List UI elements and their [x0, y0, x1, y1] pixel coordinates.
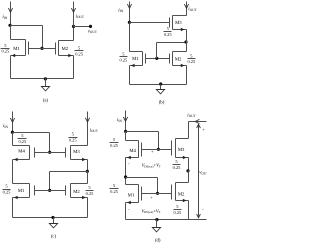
svg-text:5: 5 [113, 183, 116, 188]
ground (c) [49, 218, 57, 228]
transistor M2 (d) [172, 183, 189, 203]
wire: gate wire M1-M2 (d) [142, 193, 172, 195]
value 5/0.25 for M4 (d) [110, 137, 119, 148]
node: upper gate junction (c) [48, 151, 51, 154]
svg-text:0.25: 0.25 [110, 189, 118, 194]
wire: M2 drain riser (b) [186, 43, 188, 52]
svg-text:iIN: iIN [117, 117, 123, 123]
transistor M1 (c) [13, 184, 35, 200]
svg-text:M1: M1 [132, 56, 139, 62]
node: gate junction (a) [40, 47, 43, 50]
svg-text:5: 5 [78, 45, 81, 50]
current arrow iOUT (b) [184, 4, 188, 8]
value 5/0.25 for M1 (b) [120, 51, 129, 62]
wire: input node to M3 gate (b) [130, 22, 170, 24]
svg-text:5: 5 [176, 204, 179, 209]
svg-text:0.25: 0.25 [110, 143, 118, 148]
value 5/0.25 for M2 (d) [174, 204, 183, 215]
value 5/0.25 for M2 (b) [187, 53, 195, 64]
svg-text:M2: M2 [73, 189, 80, 195]
svg-text:M2: M2 [178, 191, 185, 197]
ground (b) [156, 85, 164, 94]
svg-text:0.25: 0.25 [86, 191, 94, 196]
wire: M2 source down (b) [186, 66, 188, 85]
svg-text:0.25: 0.25 [3, 190, 11, 195]
node: input node (c) [11, 131, 14, 134]
value 5/0.25 for M3 (c) [69, 132, 78, 143]
svg-text:iOUT: iOUT [187, 112, 196, 118]
svg-text:0.25: 0.25 [120, 57, 128, 62]
node: input node (a) [8, 24, 11, 27]
svg-text:0.25: 0.25 [187, 59, 195, 64]
wire: M1 gate riser (c) [49, 172, 51, 191]
wire: M2 source down (c) [87, 198, 89, 218]
node: cascode node (d) [186, 169, 189, 172]
wire: input node to M4 gate riser (d) [126, 131, 159, 133]
svg-text:vOUT: vOUT [88, 29, 98, 34]
svg-text:M2: M2 [62, 46, 69, 52]
node: ground rail junction (a) [44, 77, 47, 80]
wire: M2 drain riser (c) [87, 172, 89, 184]
svg-text:-: - [202, 207, 204, 212]
svg-text:0.25: 0.25 [75, 51, 83, 56]
wire: gate wire M1-M2 (c) [35, 190, 66, 192]
svg-text:(c): (c) [51, 234, 57, 240]
svg-text:iIN: iIN [118, 8, 124, 14]
svg-text:5: 5 [88, 185, 91, 190]
node: ground rail junction (c) [51, 216, 54, 219]
wire: M1 source down (c) [12, 198, 14, 218]
current arrow iIN (a) [8, 2, 12, 26]
svg-text:M1: M1 [13, 46, 20, 52]
current arrow iIN (b) [127, 2, 131, 23]
node: input node (b) [128, 21, 131, 24]
current arrow iIN (d) [123, 111, 127, 132]
svg-text:vOUT: vOUT [199, 171, 207, 176]
svg-text:5: 5 [122, 51, 125, 56]
node: upper gate junction (d) [157, 148, 160, 151]
svg-text:-: - [128, 161, 130, 166]
svg-text:0.25: 0.25 [164, 32, 172, 37]
transistor M4 (c) [13, 146, 35, 162]
value 5/0.25 for M3 (b) [164, 26, 173, 37]
wire: M3 source riser (c) [87, 160, 89, 172]
vOUT range arrow (d) [197, 124, 201, 218]
wire: ground rail (b) [130, 84, 187, 86]
transistor M2 (c) [66, 184, 88, 200]
svg-text:iOUT: iOUT [90, 127, 99, 133]
transistor M3 (b) [170, 16, 187, 32]
wire: M1 source down (b) [129, 66, 131, 85]
wire: M4 diode riser (c) [49, 133, 51, 153]
svg-text:M4: M4 [18, 148, 25, 154]
transistor M1 (b) [130, 52, 146, 68]
wire: gate wire M4-M3 (c) [35, 152, 66, 154]
svg-text:VDS(sat)+VT: VDS(sat)+VT [141, 208, 160, 214]
wire: input node down to M4 drain (d) [125, 132, 127, 141]
svg-text:M3: M3 [73, 149, 80, 155]
wire: ground rail (d) [126, 219, 207, 221]
transistor M2 (b) [170, 52, 187, 68]
wire: M4 source down to M1 drain (c) [12, 160, 14, 184]
wire: gate wire M1-M2 (a) [29, 48, 56, 50]
wire: gate wire M1-M2 (b) [146, 58, 170, 60]
svg-text:iOUT: iOUT [188, 6, 197, 12]
node: input node (d) [124, 130, 127, 133]
svg-text:iOUT: iOUT [76, 13, 85, 19]
svg-text:5: 5 [190, 53, 193, 58]
transistor M1 (a) [11, 40, 29, 58]
wire: output node to vOUT (a) [74, 26, 91, 28]
svg-text:iIN: iIN [2, 14, 8, 20]
ground (d) [152, 220, 160, 232]
transistor M3 (d) [172, 139, 189, 160]
current arrow iOUT (d) [195, 119, 199, 123]
wire: gate wire M4-M3 (d) [142, 149, 172, 151]
value 5/0.25 for M1 (a) [1, 43, 10, 54]
wire: input node down to M1 drain (a) [10, 26, 12, 40]
wire: M4 source down to M1 drain (d) [125, 158, 127, 185]
wire: M3 source riser (d) [188, 158, 190, 171]
wire: M1 diode riser (d) [157, 178, 159, 194]
svg-text:5: 5 [4, 43, 7, 48]
wire: input node to gate riser (a) [11, 25, 43, 27]
wire: ground rail (a) [11, 78, 74, 80]
wire: input node down to M1 drain (b) [129, 23, 131, 52]
wire: M1 source down (d) [125, 203, 127, 220]
svg-text:0.25: 0.25 [173, 165, 181, 170]
wire: M2 drain riser (d) [188, 171, 190, 183]
svg-text:5: 5 [72, 132, 75, 137]
value 5/0.25 for M4 (c) [18, 133, 27, 144]
transistor M3 (c) [66, 146, 88, 162]
wire: input node down to M4 drain (c) [12, 133, 14, 146]
svg-text:+: + [150, 195, 153, 200]
value 5/0.25 for M3 (d) [173, 159, 182, 170]
transistor M4 (d) [126, 141, 142, 160]
svg-text:0.25: 0.25 [18, 139, 26, 144]
svg-text:0.25: 0.25 [1, 49, 9, 54]
value 5/0.25 for M1 (c) [3, 184, 12, 195]
node: output node (a) [72, 25, 75, 28]
svg-text:5: 5 [5, 184, 8, 189]
value 5/0.25 for M1 (d) [110, 183, 119, 194]
svg-text:M3: M3 [175, 20, 182, 26]
svg-text:M4: M4 [129, 148, 136, 154]
svg-text:(b): (b) [159, 99, 165, 105]
svg-text:+: + [202, 127, 205, 132]
svg-text:5: 5 [21, 133, 24, 138]
wire: M2 source down (d) [188, 201, 190, 220]
wire: ground rail (c) [13, 217, 88, 219]
wire: M2 drain riser (a) [73, 27, 75, 41]
wire: gate riser (b) [157, 43, 187, 59]
node: ground rail junction (d) [155, 218, 158, 221]
svg-text:VDS(sat)+VT: VDS(sat)+VT [142, 163, 161, 169]
wire: input node to gate riser (c) [13, 132, 50, 134]
wire: M1 source down (a) [10, 56, 12, 79]
wire: diode riser M1 gate (a) [42, 26, 44, 49]
value 5/0.25 for M2 (a) [75, 45, 84, 56]
svg-text:(a): (a) [43, 98, 49, 104]
current arrow iIN (c) [10, 112, 14, 133]
wire: iOUT feed (d) [189, 121, 207, 123]
svg-text:5: 5 [175, 159, 178, 164]
svg-text:-: - [128, 206, 130, 211]
transistor M1 (d) [126, 185, 142, 205]
wire: M4 diode riser (d) [158, 132, 160, 150]
node vOUT terminal (a) [89, 25, 92, 28]
node: gate junction (b) [155, 57, 158, 60]
node: lower gate junction (c) [48, 189, 51, 192]
svg-text:5: 5 [113, 137, 116, 142]
ground (a) [41, 79, 49, 91]
svg-text:M3: M3 [178, 147, 185, 153]
wire: cascode node to gate riser (c) [50, 171, 88, 173]
node: ground rail junction (b) [159, 82, 162, 85]
svg-text:0.25: 0.25 [174, 210, 182, 215]
svg-text:M1: M1 [18, 188, 25, 194]
node: M1 drain node (d) [124, 175, 127, 178]
svg-text:M2: M2 [175, 57, 182, 63]
current arrow iOUT (c) [85, 112, 89, 146]
svg-text:iIN: iIN [3, 123, 9, 129]
transistor M2 (a) [56, 41, 74, 58]
svg-text:(d): (d) [155, 238, 161, 243]
wire: M3 drain riser (d) [188, 122, 190, 139]
current arrow iOUT (a) [71, 2, 75, 27]
wire: M3 drain to iOUT (b) [186, 2, 188, 16]
svg-text:M1: M1 [128, 192, 135, 198]
node: cascode node (c) [86, 170, 89, 173]
value 5/0.25 for M2 (c) [86, 185, 95, 196]
svg-text:0.25: 0.25 [69, 138, 77, 143]
wire: M1 drain node to gate riser (d) [126, 177, 158, 179]
wire: M3 source riser (b) [186, 30, 188, 43]
node: M3 source M2 drain node (b) [184, 40, 187, 43]
wire: M2 source down (a) [73, 56, 75, 79]
node: lower gate junction (d) [156, 192, 159, 195]
